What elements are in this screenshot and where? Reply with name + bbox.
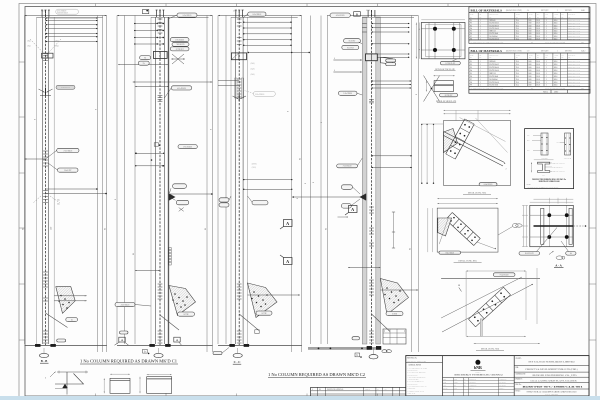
column C phantom callout bubble [253, 91, 275, 96]
column B lower callout bubble [178, 145, 197, 149]
svg-text:4-22o HOLES: 4-22o HOLES [336, 15, 345, 17]
svg-text:3. HOLES 22o FOR M20 BOLTS: 3. HOLES 22o FOR M20 BOLTS [408, 377, 426, 379]
svg-text:MK: MK [554, 57, 556, 59]
brace detail callout bubble [439, 251, 461, 254]
column B flange outer lines [150, 17, 152, 344]
svg-text:WT: WT [561, 14, 563, 16]
svg-text:3050: 3050 [528, 36, 531, 38]
svg-text:IS 2062 GR.B.: IS 2062 GR.B. [408, 388, 416, 390]
column A splice dashes at y196 [50, 196, 60, 203]
svg-text:DRN: DRN [443, 379, 446, 381]
column C small flag marker [255, 330, 259, 334]
svg-text:3050: 3050 [528, 70, 531, 72]
svg-text:563.6: 563.6 [554, 61, 558, 63]
column D pill bubbles near tie [341, 185, 352, 190]
svg-text:P-1: P-1 [470, 61, 472, 63]
svg-text:FOR M20 BOLTS: FOR M20 BOLTS [57, 13, 68, 15]
svg-text:85: 85 [325, 228, 327, 230]
column B vertical dimension lines right [206, 16, 208, 353]
svg-text:P-4: P-4 [470, 70, 472, 72]
svg-text:IS 800 / SP 47.: IS 800 / SP 47. [408, 393, 417, 395]
column D vertical dim chain right side [393, 212, 395, 248]
svg-text:UNLESS NOTED.: UNLESS NOTED. [408, 374, 419, 376]
svg-text:MK: MK [516, 57, 518, 59]
column A flange outer lines [36, 17, 38, 344]
svg-text:UNIT QTY:: UNIT QTY: [541, 51, 549, 53]
column B base bolt ticks [158, 330, 163, 332]
svg-text:3050: 3050 [528, 25, 531, 27]
svg-text:MK: MK [529, 16, 531, 18]
column C lower gusset plate with bolt holes [248, 283, 278, 318]
column D flange bands [362, 17, 367, 344]
column D lower bolt ticks [369, 279, 374, 281]
border grid reference ticks left [19, 61, 25, 63]
brace detail gusset plate hatched [438, 218, 452, 236]
section A-A small ellipses [556, 256, 563, 260]
column B splice gusset box [153, 52, 167, 59]
svg-text:3050: 3050 [528, 67, 531, 69]
svg-text:MK: MK [470, 16, 472, 18]
column B mid callout bubble [171, 86, 192, 90]
svg-text:MK: MK [479, 16, 481, 18]
column C anchor bolt stubs above top [235, 10, 237, 17]
column B heavy right flange line [167, 17, 169, 344]
column A tie rows at y189 [46, 188, 98, 190]
svg-text:3050: 3050 [528, 23, 531, 25]
svg-text:3050: 3050 [528, 31, 531, 33]
column C base plate dark segments [230, 344, 235, 346]
title block company logo [475, 360, 480, 365]
column B top bolt ticks [158, 18, 163, 20]
column A base plate dark segments [35, 344, 40, 346]
svg-text:85: 85 [410, 248, 412, 250]
column A gusset dimension arrows [54, 295, 86, 297]
column A pill callout above base [57, 339, 66, 342]
section A-A left channel bar [541, 208, 544, 244]
column D thick grey ground band [308, 347, 381, 350]
svg-text:MK: MK [561, 16, 563, 18]
svg-text:50 50: 50 50 [233, 11, 237, 13]
svg-text:3050: 3050 [528, 76, 531, 78]
svg-text:[94]: [94] [56, 46, 59, 48]
svg-text:2-22o HOLES: 2-22o HOLES [343, 166, 352, 168]
column B top edge line [117, 15, 213, 17]
svg-text:C - C: C - C [234, 360, 241, 364]
svg-text:BOM-PBS-SFC-19880/CLR-000: BOM-PBS-SFC-19880/CLR-000 [407, 360, 426, 362]
column A base bolt ticks [43, 330, 48, 332]
base plate detail rectangle 2 [147, 377, 172, 394]
brace detail 1 steep ladder member [446, 119, 465, 154]
svg-text:2-22o HOLES: 2-22o HOLES [61, 87, 70, 89]
svg-text:3050: 3050 [528, 20, 531, 22]
svg-text:P-3: P-3 [470, 67, 472, 69]
svg-text:CHD: CHD [443, 382, 446, 384]
svg-text:95x10 PLT: 95x10 PLT [349, 41, 356, 43]
svg-text:92.4: 92.4 [516, 67, 519, 69]
svg-text:281.8: 281.8 [536, 20, 540, 22]
column D top edge line [327, 15, 418, 17]
svg-text:8: 8 [210, 129, 212, 130]
svg-text:92.4: 92.4 [516, 73, 519, 75]
brace detail 3 bottom dims [466, 335, 526, 337]
svg-text:85: 85 [133, 253, 135, 255]
column D base anchor dots on band [318, 348, 320, 350]
svg-text:[94]: [94] [56, 41, 59, 43]
column C ground line at base [218, 344, 302, 346]
svg-text:P-2: P-2 [470, 23, 472, 25]
svg-text:P-5: P-5 [470, 31, 472, 33]
detail top plate leader bubble [440, 61, 460, 65]
svg-text:2-20o HOLES: 2-20o HOLES [255, 94, 264, 96]
svg-text:2-20o HOLES: 2-20o HOLES [175, 40, 184, 42]
svg-text:[94]: [94] [28, 46, 31, 48]
svg-text:BNR ENERGY SYSTEMS LTD, CHENNA: BNR ENERGY SYSTEMS LTD, CHENNAI [455, 373, 504, 376]
column B horizontal dimension line [133, 81, 213, 83]
svg-text:8: 8 [297, 198, 299, 199]
column C section cut markers A [284, 220, 293, 227]
svg-text:95x10 PLT: 95x10 PLT [347, 47, 354, 49]
column B top callout bubble [177, 13, 197, 17]
column D base bolt ticks [369, 330, 374, 332]
column D tiny leader arrow below tie [338, 216, 349, 218]
svg-text:UNLESS NOTED.: UNLESS NOTED. [408, 370, 419, 372]
column A mid dimension arrow line [25, 158, 46, 160]
svg-text:(2000): (2000) [252, 163, 257, 166]
column D pill bubble above base [352, 337, 360, 340]
svg-text:A - A: A - A [555, 263, 562, 267]
marker b at column B mid height [154, 143, 158, 146]
column A splice connection detail [43, 53, 48, 55]
svg-text:281.8: 281.8 [536, 79, 540, 81]
svg-text:2-22o HOLES: 2-22o HOLES [63, 150, 72, 152]
column B top bolt rows [134, 23, 164, 25]
brace detail 3 (lower right) [441, 278, 540, 280]
svg-text:COL. B1-B2: COL. B1-B2 [564, 157, 571, 159]
svg-text:281.8: 281.8 [536, 61, 540, 63]
column D gusset dimension arrows [380, 289, 418, 291]
brace detail 1 left dimension lines [421, 124, 423, 184]
column D mid bolt ticks [369, 99, 374, 101]
column D lower gusset plate with bolt holes [380, 279, 408, 315]
column A grey pill bubble at y86 [56, 85, 75, 89]
detail top plate with 4 bolts [421, 23, 465, 59]
column A web centreline dashed [45, 11, 47, 346]
brace detail 3 axis diagonals [442, 284, 533, 332]
svg-text:50 50: 50 50 [366, 10, 370, 12]
svg-text:MK: MK [561, 57, 563, 59]
svg-text:bNR: bNR [474, 365, 482, 370]
svg-text:MK: MK [568, 57, 570, 59]
svg-text:2: 2 [506, 169, 507, 171]
svg-text:10.07.14: 10.07.14 [365, 389, 370, 391]
svg-text:150x10 PLT: 150x10 PLT [64, 170, 71, 172]
column D dim line at y267 [348, 267, 380, 269]
column D base plate dark segments [367, 346, 372, 349]
svg-text:CLIENT :: CLIENT : [516, 358, 523, 360]
column A mid callout bubbles [57, 148, 79, 152]
BOM table 2 footer [469, 85, 590, 87]
column D left callout bubbles [344, 39, 361, 43]
column C mid bolt rows to right dim [243, 179, 293, 181]
BOM table 1 title row [469, 12, 590, 14]
svg-text:85: 85 [300, 158, 302, 160]
BOM table 2 data rows [469, 62, 590, 64]
svg-text:418x10 WEB PLT: 418x10 WEB PLT [553, 167, 563, 169]
svg-text:563.6: 563.6 [554, 67, 558, 69]
svg-text:A: A [351, 207, 354, 212]
column A lower bolt ticks [43, 271, 48, 273]
svg-text:MK: MK [537, 57, 539, 59]
svg-text:P-8: P-8 [470, 82, 472, 84]
end plate detail rectangle 1 [110, 378, 130, 393]
brace detail 3 member ladder [476, 295, 511, 327]
svg-text:2-16o HOLES: 2-16o HOLES [183, 147, 192, 149]
svg-text:PROJECT :: PROJECT : [516, 379, 524, 381]
svg-text:BOM-PBS-SFC-19880/CLR-001: BOM-PBS-SFC-19880/CLR-001 [523, 387, 583, 389]
column A vertical dimension lines right [97, 16, 99, 353]
legend right column elevation [565, 133, 571, 155]
svg-text:12 THK PLT: 12 THK PLT [176, 49, 184, 51]
column D anchor bolt stubs above top [367, 10, 369, 17]
tiny bubble above marker A [120, 331, 129, 334]
column C pill callout left of base [213, 352, 222, 355]
svg-text:P-7: P-7 [470, 79, 472, 81]
svg-text:DETAIL OF TOP PLATE: DETAIL OF TOP PLATE [435, 68, 455, 71]
detail side bracket left dims [425, 81, 427, 92]
svg-text:PLT: PLT [542, 175, 544, 177]
column A anchor bolt ellipse below base [39, 353, 48, 357]
svg-text:C-2: C-2 [527, 51, 530, 53]
svg-text:563.6: 563.6 [554, 23, 558, 25]
svg-text:ENERGY: ENERGY [475, 371, 480, 373]
column C lower bolt ticks [237, 283, 242, 285]
svg-text:M/S TALWAR FERTILIZERS LIMITED: M/S TALWAR FERTILIZERS LIMITED [529, 361, 576, 364]
section cut marker A left of column B base [119, 337, 125, 342]
brace detail 1 double diagonal member to lower right [444, 132, 505, 163]
svg-text:BOT: BOT [527, 150, 530, 152]
svg-text:UNIT WT:: UNIT WT: [565, 51, 573, 53]
brace detail 1 callout bubble [479, 183, 497, 186]
column C base bolt ticks [237, 330, 242, 332]
svg-text:4-22o HOLES: 4-22o HOLES [121, 305, 130, 307]
svg-text:ISMC 250: ISMC 250 [489, 73, 496, 75]
svg-text:281.8: 281.8 [536, 28, 540, 30]
svg-text:DT 10.7.14: DT 10.7.14 [499, 385, 505, 387]
column D mid lower callout bubble [337, 164, 358, 168]
section cut marker A right of column B base [174, 337, 180, 342]
svg-text:1640.2: 1640.2 [581, 51, 586, 53]
BOM table 2 title row [469, 52, 590, 54]
svg-text:563.6: 563.6 [554, 79, 558, 81]
BOM table 1 data rows [469, 21, 590, 23]
svg-text:4-22o HOLES: 4-22o HOLES [57, 10, 66, 12]
svg-text:SHEET 1: SHEET 1 [499, 388, 504, 390]
column A mid bolt ticks [43, 150, 48, 152]
svg-text:3050: 3050 [528, 61, 531, 63]
column D small base circles [382, 350, 387, 353]
column A lower callout bubble [66, 318, 78, 322]
column B stiffener lines mid [135, 152, 164, 154]
BOM table 2 header row [469, 59, 590, 61]
column C anchor bolt cross symbol [238, 95, 240, 102]
column A web edge lines [42, 17, 44, 344]
svg-text:92.4: 92.4 [516, 64, 519, 66]
brace detail 1 diagonal dimension line above member [460, 118, 506, 142]
svg-text:NOTE:: NOTE: [527, 184, 532, 186]
svg-text:281.8: 281.8 [536, 76, 540, 78]
svg-text:[94]: [94] [28, 41, 31, 43]
svg-text:6-24o HOLES: 6-24o HOLES [484, 184, 493, 186]
svg-text:MK: MK [545, 57, 547, 59]
column C web centreline dashed [238, 11, 240, 346]
column D lower connection ticks [369, 206, 374, 208]
svg-text:3050: 3050 [528, 64, 531, 66]
column C vertical dimension lines left [217, 16, 219, 345]
column C top edge line [218, 15, 302, 17]
svg-text:281.8: 281.8 [536, 70, 540, 72]
svg-text:281.8: 281.8 [536, 82, 540, 84]
column D splice gusset box [366, 54, 378, 61]
column A top phantom callout [56, 9, 79, 14]
column C flange outer lines [230, 17, 232, 344]
column C vertical dimension lines right [291, 16, 293, 353]
svg-text:563.6: 563.6 [554, 20, 558, 22]
svg-text:P-7: P-7 [470, 36, 472, 38]
svg-text:563.6: 563.6 [554, 82, 558, 84]
column A ground line at base [25, 344, 107, 346]
svg-text:8: 8 [96, 109, 98, 110]
svg-text:P-6: P-6 [470, 33, 472, 35]
column B side plate with bars [169, 248, 171, 266]
column D web centreline dashed [371, 10, 373, 345]
column B lower left bubble [115, 303, 135, 307]
column C lower gusset bubble [256, 311, 272, 315]
svg-text:B: B [356, 12, 358, 16]
svg-text:92.4: 92.4 [516, 25, 519, 27]
svg-text:92.4: 92.4 [516, 31, 519, 33]
svg-text:92.4: 92.4 [516, 82, 519, 84]
column B dimension line below rows [118, 64, 168, 66]
svg-text:PROFILE SIZE: PROFILE SIZE [489, 14, 498, 16]
svg-text:20 THK PLT: 20 THK PLT [445, 95, 453, 97]
marker b below column D base [355, 353, 360, 357]
svg-text:P-6: P-6 [470, 76, 472, 78]
svg-text:DETAIL OF SIDE PLATE: DETAIL OF SIDE PLATE [436, 100, 457, 103]
legend I-section dimension arrows [531, 162, 533, 172]
column B anchor cross detail [172, 54, 184, 64]
svg-text:UNIT WT:: UNIT WT: [565, 10, 573, 12]
svg-text:ISHB 450: ISHB 450 [489, 61, 495, 63]
column B tie row at y194 [169, 193, 213, 195]
column C web connection ticks [237, 78, 242, 80]
column C gusset dimension arrows [248, 294, 301, 296]
column D brace axis line [372, 314, 391, 332]
svg-text:TOP: TOP [527, 135, 530, 137]
svg-text:281.8: 281.8 [536, 64, 540, 66]
column A anchor bolt stubs above top [41, 10, 43, 17]
svg-text:3280.0: 3280.0 [554, 91, 558, 93]
svg-text:A: A [458, 284, 460, 287]
column D mid bolt rows upper [372, 80, 412, 82]
svg-text:SD: SD [377, 389, 379, 391]
BOM table 1 header row [469, 18, 590, 20]
svg-text:P-1: P-1 [470, 20, 472, 22]
brace detail top dimension lines [437, 198, 498, 200]
svg-text:MK: MK [554, 16, 556, 18]
svg-text:8: 8 [321, 122, 323, 123]
column A top edge line [25, 15, 107, 17]
svg-text:563.6: 563.6 [554, 28, 558, 30]
svg-text:563.6: 563.6 [554, 70, 558, 72]
svg-text:TITLE :: TITLE : [516, 390, 522, 392]
section A-A right channel bar [569, 208, 572, 244]
svg-text:MK: MK [568, 16, 570, 18]
svg-text:UT.WT: UT.WT [516, 14, 520, 16]
svg-text:PROFILE SIZE: PROFILE SIZE [489, 55, 498, 57]
svg-text:85: 85 [22, 228, 24, 230]
svg-text:B - B: B - B [41, 359, 48, 363]
svg-text:(240): (240) [251, 73, 255, 76]
svg-text:8-22o HOLES: 8-22o HOLES [183, 15, 192, 17]
svg-text:(240): (240) [251, 68, 255, 71]
svg-text:8: 8 [416, 94, 418, 95]
svg-text:281.8: 281.8 [536, 25, 540, 27]
column D seat wedge [360, 194, 366, 201]
brace detail box [437, 208, 498, 252]
svg-text:6: 6 [334, 58, 335, 60]
section A-A bottom callout bubbles [519, 252, 540, 256]
column B ground line at base [117, 344, 213, 346]
svg-text:85: 85 [205, 228, 207, 230]
svg-text:MID: MID [527, 140, 530, 142]
column C brace axis line [239, 314, 259, 331]
svg-text:3050: 3050 [528, 28, 531, 30]
svg-text:LGTH: LGTH [529, 14, 533, 16]
column B vertical dimension lines left [116, 16, 118, 345]
svg-text:563.6: 563.6 [554, 64, 558, 66]
svg-text:M20 BOLTS: M20 BOLTS [177, 44, 185, 46]
svg-text:A: A [286, 221, 289, 226]
border grid reference ticks top [95, 4, 97, 7]
column D top left callout bubble [330, 13, 350, 17]
section A-A web thick line [534, 225, 574, 227]
svg-text:281.8: 281.8 [536, 23, 540, 25]
svg-text:DETAIL AT (FIG. X02): DETAIL AT (FIG. X02) [458, 260, 477, 263]
svg-text:92.4: 92.4 [516, 61, 519, 63]
column B lower bolt ticks [158, 283, 163, 285]
detail side bracket bubble [440, 93, 458, 96]
svg-text:DETAIL AT (FIG. X03): DETAIL AT (FIG. X03) [481, 348, 500, 351]
svg-text:8-24o HOLES: 8-24o HOLES [500, 274, 509, 276]
column D anchor bolt ellipse below base [369, 355, 378, 359]
svg-text:6: 6 [334, 70, 335, 72]
svg-text:CODE: CODE [554, 14, 558, 16]
BOM table 2 extra total row [469, 90, 590, 94]
column D top left short ticks [362, 23, 366, 25]
column A anchor bolt cross symbol [45, 88, 47, 96]
legend left column elevation [541, 133, 548, 155]
svg-text:MK: MK [537, 16, 539, 18]
svg-text:WT: WT [561, 55, 563, 57]
svg-text:(240): (240) [251, 62, 255, 65]
svg-text:3050: 3050 [528, 73, 531, 75]
column B dim line at y270 [135, 270, 160, 272]
svg-text:8: 8 [35, 119, 37, 120]
svg-text:TOT: TOT [545, 55, 548, 57]
svg-text:92.4: 92.4 [516, 23, 519, 25]
svg-text:3050: 3050 [528, 79, 531, 81]
column D tie row at y197 [293, 196, 362, 198]
